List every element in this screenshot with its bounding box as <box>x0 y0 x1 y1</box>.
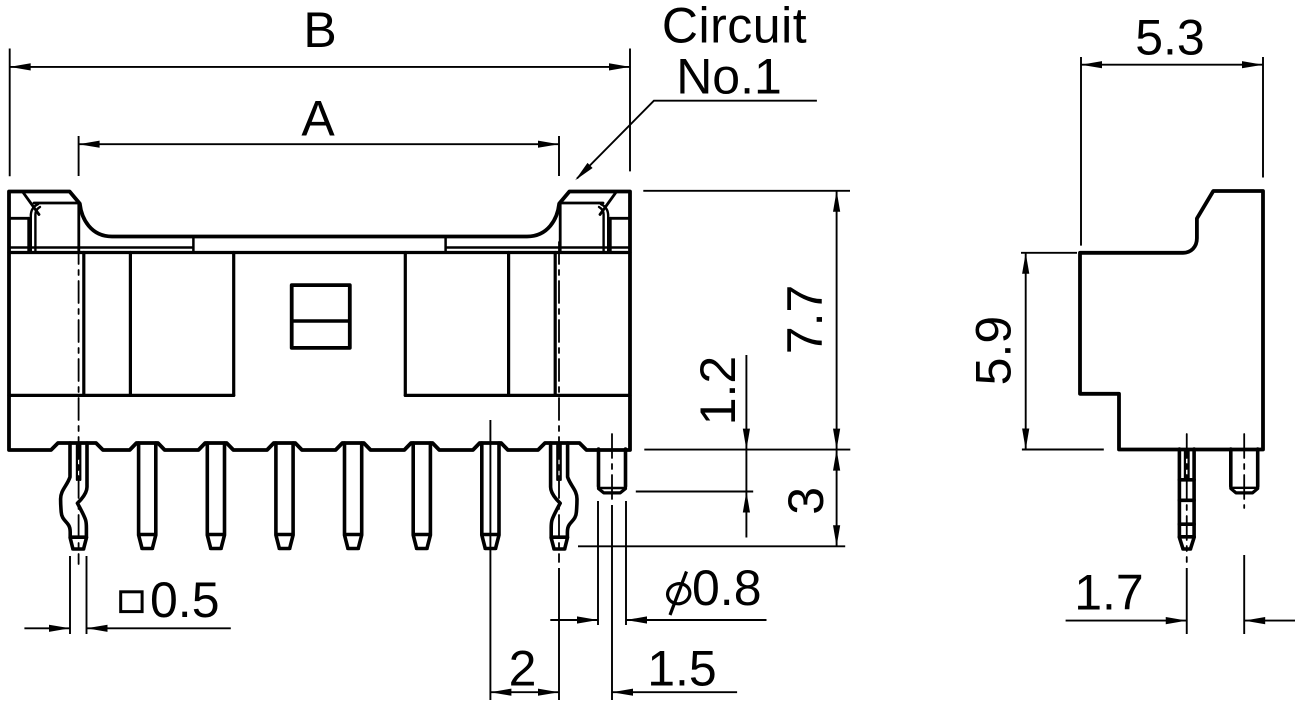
dimension 3 extension line <box>578 545 845 547</box>
side boss center extension <box>1243 555 1245 634</box>
arrow A left <box>79 141 100 148</box>
dimension 5.3 line <box>1081 64 1263 66</box>
svg-text:5.3: 5.3 <box>1135 10 1205 66</box>
svg-text:1.5: 1.5 <box>647 640 717 696</box>
pin7 center extension line <box>489 420 491 700</box>
dimension 1.5 line <box>612 691 737 693</box>
dimension 3 line <box>836 450 838 547</box>
arrow sq left <box>49 625 70 632</box>
pin 2 <box>139 443 156 549</box>
svg-text:0.8: 0.8 <box>692 560 762 616</box>
dimension 7.7 extension lines <box>643 191 850 450</box>
boss edge extension lines <box>598 501 626 625</box>
boss center extension line <box>611 505 613 700</box>
dimension 1.2 extension line <box>636 491 753 493</box>
dimension 7.7 line <box>836 191 838 450</box>
square0.5 extension lines <box>70 556 87 634</box>
dimension A extension lines <box>79 136 559 176</box>
pin 8 kinked <box>551 443 577 549</box>
centerline side pin <box>1186 434 1188 562</box>
dimension A line <box>79 143 559 145</box>
pin 1 kinked <box>61 443 87 549</box>
phi symbol <box>665 572 692 616</box>
arrow phi right <box>626 616 647 623</box>
arrow 1.7 right <box>1244 617 1265 624</box>
dimension square0.5 line <box>24 627 230 629</box>
arrow 5.9 bottom <box>1022 429 1029 450</box>
square symbol <box>121 592 142 612</box>
arrow B right <box>609 63 630 70</box>
svg-text:0.5: 0.5 <box>150 572 220 628</box>
side pin <box>1179 449 1194 549</box>
svg-text:Circuit: Circuit <box>662 0 807 54</box>
centerline boss front <box>611 434 613 500</box>
front view housing outline <box>9 192 630 451</box>
dimension phi0.8 line <box>550 619 766 621</box>
arrow phi left <box>577 616 598 623</box>
arrow leader <box>575 163 592 180</box>
pin 7 <box>482 443 499 549</box>
front boss peg <box>599 449 626 493</box>
svg-text:A: A <box>301 90 335 146</box>
arrow 5.9 top <box>1022 253 1029 274</box>
arrow 1.2 top <box>743 429 750 450</box>
arrow 5.3 right <box>1242 61 1263 68</box>
side boss peg <box>1231 449 1258 493</box>
svg-text:3: 3 <box>778 487 834 515</box>
dimension 1.7 line <box>1066 620 1295 622</box>
collar line <box>9 251 630 254</box>
leader line circuit no1 <box>577 101 817 179</box>
arrow 1.2 bottom <box>743 492 750 513</box>
dimension B extension lines <box>10 49 630 177</box>
right wing inner details <box>560 193 630 253</box>
svg-text:1.2: 1.2 <box>690 356 746 426</box>
dimension 2 line <box>490 691 559 693</box>
pin 4 <box>276 443 293 549</box>
centerline pin8 <box>558 242 560 562</box>
arrow 3 top <box>833 450 840 471</box>
dimension 5.3 extension lines <box>1081 57 1263 246</box>
svg-text:5.9: 5.9 <box>966 316 1022 386</box>
arrow 1.5 <box>612 689 633 696</box>
interior cavity walls <box>9 253 630 396</box>
arrow 2 right <box>538 689 559 696</box>
pin8 center extension line <box>558 568 560 700</box>
svg-text:No.1: No.1 <box>676 49 782 105</box>
arrow A right <box>538 141 559 148</box>
center latch rectangle <box>292 285 350 348</box>
pin 3 <box>207 443 224 549</box>
pin 5 <box>345 443 362 549</box>
arrow 3 bottom <box>833 525 840 546</box>
centerline side boss <box>1243 434 1245 508</box>
arrow 5.3 left <box>1081 61 1102 68</box>
arrow 7.7 bottom <box>833 429 840 450</box>
centerline pin1 <box>78 242 80 564</box>
arrow 7.7 top <box>833 191 840 212</box>
dimension B line <box>10 66 630 68</box>
side view outline <box>1080 191 1263 450</box>
svg-text:B: B <box>303 2 336 58</box>
svg-text:1.7: 1.7 <box>1074 565 1144 621</box>
side pin center extension <box>1186 568 1188 634</box>
dimension 5.9 extension lines <box>1021 253 1104 450</box>
svg-text:7.7: 7.7 <box>777 285 833 355</box>
arrow B left <box>10 63 31 70</box>
dimension 1.2 lines <box>745 355 747 538</box>
svg-text:2: 2 <box>509 640 537 696</box>
arrow 2 left <box>490 689 511 696</box>
pin 6 <box>413 443 430 549</box>
ledge lines <box>9 237 630 253</box>
dimension 5.9 line <box>1025 253 1027 450</box>
arrow 1.7 left <box>1166 617 1187 624</box>
left wing inner details <box>9 193 79 253</box>
arrow sq right <box>87 625 108 632</box>
